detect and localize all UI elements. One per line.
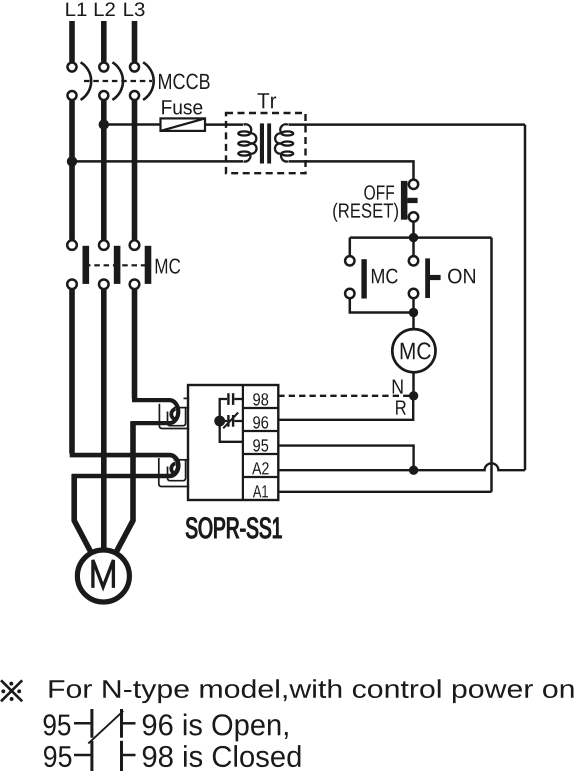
wire L1 down leg after loop 2 (74, 474, 90, 551)
junction dot relay common (214, 416, 225, 427)
pushbutton ON label (448, 269, 475, 284)
note line 3 95 label (44, 746, 71, 767)
junction dot on L1 control tap (67, 156, 77, 166)
breaker MCCB pole 3 (130, 62, 154, 100)
wire right branch down to A1 row (490, 238, 493, 492)
relay SOPR-SS1 name label (186, 517, 281, 538)
wire L1 MCCB to MC (69, 101, 75, 241)
wire L2 MC to motor (101, 289, 107, 550)
wire MC aux to bottom node row (350, 298, 414, 312)
wire secondary top to right rail (289, 123, 526, 126)
note line 1 reference mark (1, 680, 22, 701)
CT loop 1 wire hook (171, 409, 175, 419)
motor M (77, 550, 129, 602)
contactor MC main pole 1 (67, 240, 89, 289)
wire L1 incoming (69, 21, 75, 62)
contact MC auxiliary label (372, 269, 398, 284)
node L1 label (66, 3, 86, 16)
contactor MC linkage dashed line (85, 264, 148, 266)
breaker MCCB label (159, 74, 210, 90)
transformer Tr core (260, 123, 271, 163)
relay internal contact 98 NO (227, 393, 243, 405)
wire A1 row to right branch (278, 491, 491, 493)
terminal 96 label (253, 416, 268, 428)
pushbutton RESET label (333, 203, 398, 222)
pushbutton ON NO (409, 256, 441, 298)
relay internal common lead 95 (220, 399, 243, 442)
breaker MCCB pole 1 (68, 62, 92, 100)
wire left branch down to MC aux contact (349, 238, 352, 256)
pushbutton OFF (RESET) NC (401, 180, 418, 222)
wire ON branch from node row (412, 238, 415, 256)
junction dot on L2 control tap (99, 119, 109, 129)
node R label (396, 401, 406, 415)
wire L3 down leg after loop 1 (117, 421, 133, 551)
node row below OFF (350, 236, 492, 239)
fuse Fuse label (162, 100, 202, 114)
terminal 98 label (253, 393, 268, 405)
wire 95 down to A2 row (278, 446, 413, 471)
wire L3 MCCB to MC (132, 101, 138, 241)
wire L3 MC to loop1 corner (132, 289, 138, 398)
junction dot N node (409, 391, 418, 400)
note line 1 text (50, 679, 574, 703)
CT loop 2 return wire (72, 474, 170, 479)
wire down to MC coil (412, 313, 415, 331)
transformer Tr primary coil (238, 124, 256, 161)
terminal A2 label (252, 462, 269, 474)
node L2 label (95, 2, 115, 16)
wire L3 incoming (132, 21, 138, 62)
wire ON to bottom node row (412, 298, 415, 312)
contact MC auxiliary NO (345, 256, 367, 298)
note line 3 text (143, 745, 301, 767)
transformer Tr secondary coil (275, 124, 293, 161)
breaker MCCB pole 2 (99, 62, 123, 100)
wire L1 tap to transformer primary bottom (72, 160, 243, 163)
wire dashed 98 to N (278, 395, 413, 397)
wire A2 row with hop to right rail (278, 463, 525, 470)
pushbutton OFF label (364, 185, 394, 200)
CT loop 1 return wire (131, 421, 170, 425)
transformer Tr dashed enclosure (226, 113, 306, 173)
wire secondary bottom to OFF button (289, 161, 414, 179)
contactor MC main pole 3 (130, 240, 152, 289)
fuse body (161, 118, 206, 130)
node N label (393, 380, 403, 394)
note line 2 contact symbol with slash (74, 709, 136, 743)
note line 2 text (143, 714, 288, 742)
wire 96 to R riser (278, 398, 413, 420)
breaker MCCB linkage dashed line (84, 80, 152, 82)
wire L1 MC to loop2 corner (69, 289, 75, 453)
wire fuse to transformer primary (205, 123, 243, 126)
CT loop 2 wire arc (170, 455, 179, 476)
CT loop 2 sensing thin lines (159, 458, 189, 487)
CT loop 2 wire hook (171, 464, 175, 474)
wire L1 horizontal into CT loop 2 (70, 453, 170, 458)
contactor MC main label (156, 259, 181, 274)
CT loop 1 wire arc (170, 400, 179, 423)
terminal A1 label (253, 485, 268, 497)
terminal 95 label (253, 439, 268, 451)
coil MC contactor (392, 329, 435, 372)
junction dot below OFF (409, 233, 418, 242)
relay SOPR-SS1 box (188, 385, 278, 500)
wire OFF to top node row (412, 222, 415, 238)
junction dot bottom node row (409, 308, 418, 317)
wire right rail down to A2 row (524, 125, 527, 471)
CT loop 1 sensing thin lines (159, 398, 189, 428)
wire L2 incoming (101, 21, 107, 62)
contactor MC main pole 2 (99, 240, 120, 289)
wire L3 horizontal into CT loop 1 (132, 398, 170, 402)
wire L2 tap to fuse (104, 123, 161, 126)
transformer Tr label (258, 93, 277, 108)
note line 2 95 label (44, 714, 71, 735)
node L3 label (124, 2, 144, 16)
junction dot A2 row (409, 466, 418, 475)
note line 3 contact symbol (74, 741, 136, 771)
wire MC coil to N node (412, 372, 415, 396)
relay internal contact 96 NC with slash (220, 413, 243, 429)
wire L2 MCCB to MC (101, 101, 107, 241)
